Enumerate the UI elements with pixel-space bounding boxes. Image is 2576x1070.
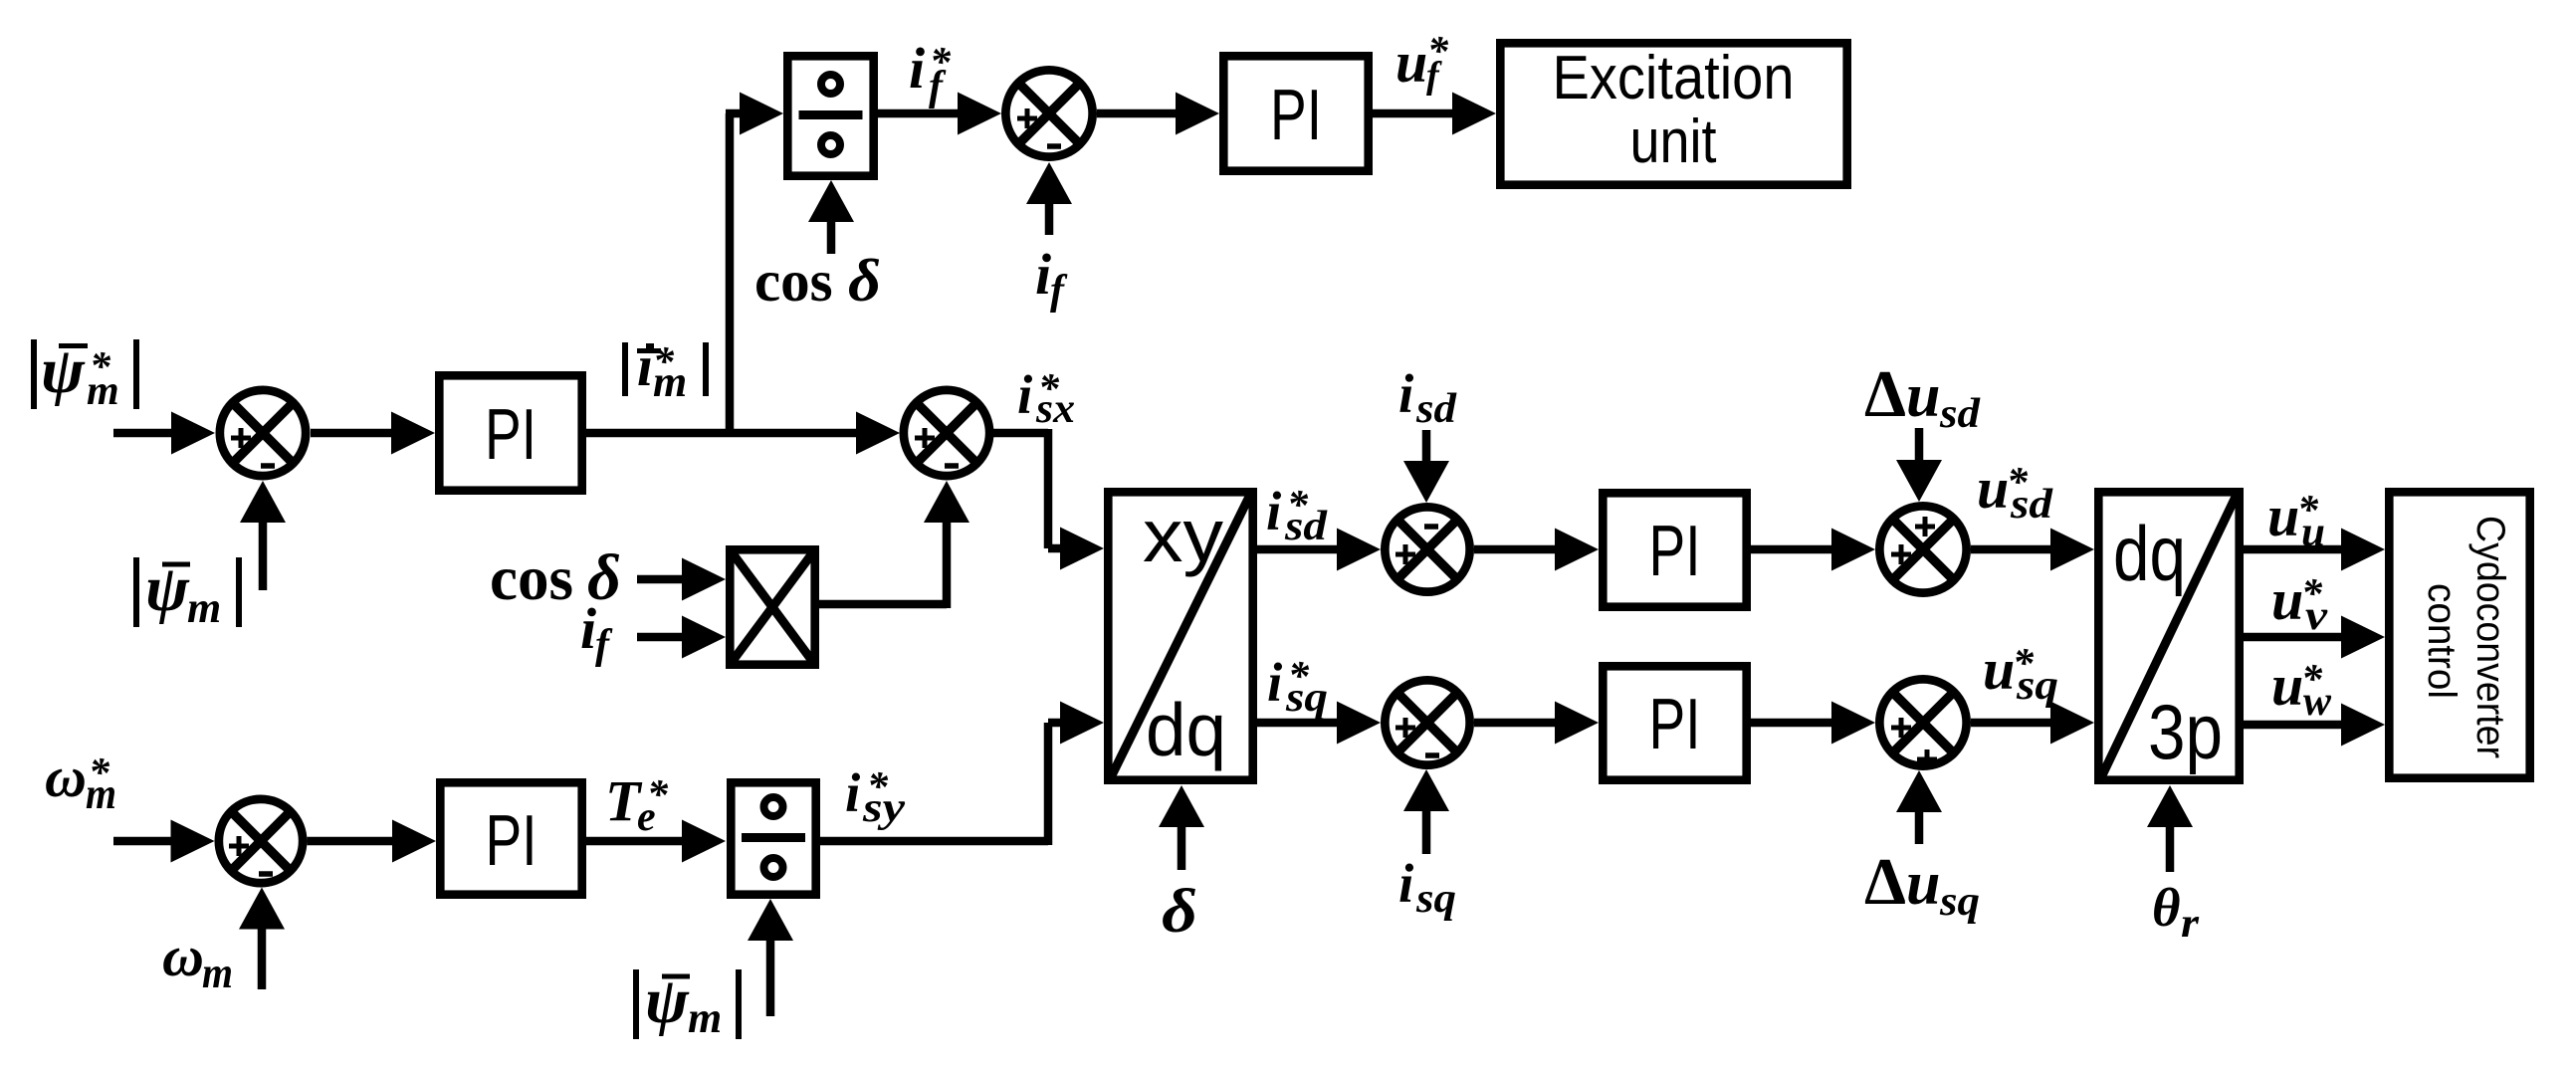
svg-text:i: i xyxy=(1267,652,1283,713)
label u_w* phase w voltage xyxy=(2271,653,2332,725)
svg-text:i: i xyxy=(580,596,596,661)
wire S1 to PI flux xyxy=(311,412,435,455)
wire speed reference input xyxy=(113,820,215,863)
svg-text:u: u xyxy=(2267,484,2299,548)
wire PI q-axis to S8 xyxy=(1751,702,1875,745)
wire Delta u_sq arrow into S8 xyxy=(1896,770,1942,844)
svg-text:sq: sq xyxy=(2016,663,2058,709)
svg-text:δ: δ xyxy=(848,248,881,314)
svg-text:sd: sd xyxy=(2010,482,2053,528)
wire S7 to PI q-axis xyxy=(1474,702,1599,745)
svg-text:w: w xyxy=(2303,679,2332,725)
wire flux feedback arrow into S1 xyxy=(240,481,286,590)
summing junction S5 d-current error xyxy=(1385,507,1469,591)
svg-text:PI: PI xyxy=(486,801,537,881)
label Delta u_sd compensation xyxy=(1864,357,1981,437)
divider block D1 xyxy=(787,56,873,175)
wire S5 to PI d-axis xyxy=(1474,529,1599,571)
svg-text:Cydoconverter: Cydoconverter xyxy=(2469,516,2512,758)
label u_sq* q-voltage reference xyxy=(1983,637,2058,709)
wire i_sq arrow into S7 xyxy=(1403,769,1449,854)
wire i_sd arrow into S5 xyxy=(1403,430,1449,503)
svg-text:i: i xyxy=(1398,363,1414,424)
svg-text:PI: PI xyxy=(485,395,537,475)
wire PI speed to divider D2 xyxy=(586,820,726,863)
wire i_f arrow into multiplier xyxy=(637,616,726,659)
svg-text:u: u xyxy=(1395,30,1427,95)
Cycloconverter control block xyxy=(2389,492,2529,777)
summing junction S6 d-voltage sum xyxy=(1879,506,1966,592)
summing junction S7 q-current error xyxy=(1385,680,1469,764)
svg-text:e: e xyxy=(637,794,656,840)
svg-text:dq: dq xyxy=(1146,688,1226,771)
svg-text:u: u xyxy=(1983,637,2015,702)
label u_v* phase v voltage xyxy=(2271,567,2329,639)
wire D1 to S2 xyxy=(878,93,1001,135)
svg-text:m: m xyxy=(87,368,119,414)
label cos delta under D1 xyxy=(754,248,881,314)
svg-text:cos: cos xyxy=(754,248,833,314)
svg-text:v: v xyxy=(2305,593,2329,639)
svg-text:i: i xyxy=(845,762,861,823)
label Delta u_sq compensation xyxy=(1864,845,1980,925)
wire xy-dq to S7 q-axis xyxy=(1257,702,1381,745)
wire PI d-axis to S6 xyxy=(1751,529,1875,571)
label omega_m speed feedback xyxy=(162,924,233,997)
wire dq-3p to cycloconverter phase v xyxy=(2244,616,2385,659)
svg-text:i: i xyxy=(1035,242,1051,307)
node |psi_m*| input label xyxy=(34,334,136,414)
svg-text:m: m xyxy=(202,949,233,997)
wire S2 to PI field xyxy=(1097,93,1219,135)
svg-text:m: m xyxy=(688,993,722,1042)
svg-text:i: i xyxy=(909,36,925,101)
svg-text:sd: sd xyxy=(1415,386,1457,432)
wire S3 to xy-dq block upper input xyxy=(993,429,1104,570)
PI controller q-axis xyxy=(1603,666,1746,779)
summing junction S1 flux error xyxy=(220,390,306,476)
wire D2 to xy-dq block lower input xyxy=(820,702,1104,846)
svg-text:Δ: Δ xyxy=(1864,845,1906,919)
Excitation unit block xyxy=(1500,43,1846,184)
wire xy-dq to S5 d-axis xyxy=(1257,529,1381,571)
svg-text:sd: sd xyxy=(1284,504,1328,549)
wire S6 to dq-3p block xyxy=(1971,529,2094,571)
svg-text:sx: sx xyxy=(1035,386,1075,432)
wire dq-3p to cycloconverter phase w xyxy=(2244,704,2385,747)
wire cos delta arrow into multiplier xyxy=(637,558,726,601)
label i_f feedback row1 xyxy=(1035,242,1068,314)
svg-text:u: u xyxy=(1977,456,2009,521)
label u_f* field voltage reference xyxy=(1395,29,1449,97)
label theta_r rotor angle xyxy=(2152,877,2200,947)
svg-text:ı: ı xyxy=(637,333,653,398)
label i_sd measured xyxy=(1398,363,1457,432)
label delta rotor angle xyxy=(1162,878,1197,946)
svg-text:m: m xyxy=(187,583,221,632)
svg-text:m: m xyxy=(86,769,116,818)
svg-text:dq: dq xyxy=(2113,510,2186,597)
svg-text:ω: ω xyxy=(45,745,87,809)
svg-text:δ: δ xyxy=(1162,878,1197,946)
svg-text:sq: sq xyxy=(1939,879,1980,925)
wire delta arrow into xy-dq block xyxy=(1159,785,1204,870)
label omega_m* speed reference xyxy=(45,745,116,818)
PI controller flux xyxy=(439,375,581,490)
PI controller field xyxy=(1223,56,1368,170)
svg-text:PI: PI xyxy=(1270,76,1322,155)
svg-text:θ: θ xyxy=(2152,877,2181,938)
label i_sx* stator x-current reference xyxy=(1017,364,1075,432)
wire speed feedback arrow into S4 xyxy=(239,888,285,990)
label u_u* phase u voltage xyxy=(2267,484,2325,555)
svg-text:sq: sq xyxy=(1285,675,1328,721)
svg-text:i: i xyxy=(1398,853,1414,914)
svg-text:sq: sq xyxy=(1415,876,1456,922)
svg-text:i: i xyxy=(1017,364,1033,425)
svg-text:u: u xyxy=(2271,653,2303,718)
svg-text:control: control xyxy=(2420,583,2464,699)
svg-text:m: m xyxy=(653,357,687,406)
dq/3p transformation block xyxy=(2098,492,2239,779)
label i_sq* output of xy-dq xyxy=(1267,652,1328,721)
summing junction S4 speed error xyxy=(219,799,303,883)
svg-text:sd: sd xyxy=(1939,391,1981,437)
wire multiplier output to S3 xyxy=(819,481,969,608)
label |psi_m| into D2 xyxy=(636,964,739,1042)
label cos delta multiplier input xyxy=(490,541,621,614)
label i_f multiplier input xyxy=(580,596,613,668)
label i_sd* output of xy-dq xyxy=(1266,481,1328,549)
divider block D2 xyxy=(731,782,815,894)
PI controller d-axis xyxy=(1603,493,1746,606)
svg-text:PI: PI xyxy=(1649,512,1701,591)
svg-text:xy: xy xyxy=(1143,494,1224,577)
wire PI field to excitation unit xyxy=(1373,93,1496,135)
svg-text:cos: cos xyxy=(490,543,573,613)
svg-text:unit: unit xyxy=(1630,107,1717,176)
wire PI flux output to S3 xyxy=(586,412,900,455)
svg-text:f: f xyxy=(595,622,613,668)
label u_sd* d-voltage reference xyxy=(1977,456,2053,528)
svg-text:PI: PI xyxy=(1649,685,1701,764)
wire S8 to dq-3p block xyxy=(1971,702,2094,745)
svg-text:i: i xyxy=(1266,481,1282,541)
wire branch up to divider D1 xyxy=(726,93,783,438)
summing junction S8 q-voltage sum xyxy=(1879,679,1966,769)
label |psi_m| flux feedback xyxy=(136,552,239,632)
label i_sy* stator y-current reference xyxy=(845,762,905,831)
wire i_f feedback arrow into S2 xyxy=(1026,162,1072,235)
svg-text:Excitation: Excitation xyxy=(1553,44,1795,112)
label i_f* field current reference xyxy=(909,36,952,109)
PI controller speed xyxy=(440,782,581,894)
wire theta_r arrow into dq-3p block xyxy=(2147,785,2193,872)
svg-text:u: u xyxy=(1906,362,1940,430)
multiplier block M1 xyxy=(730,549,815,665)
label i_sq measured xyxy=(1398,853,1456,922)
wire cos delta arrow into D1 xyxy=(808,180,854,254)
label |i_m*| magnetizing current reference xyxy=(625,333,706,406)
svg-text:u: u xyxy=(2271,567,2303,632)
svg-text:u: u xyxy=(1906,850,1940,918)
svg-text:sy: sy xyxy=(862,785,906,831)
svg-text:f: f xyxy=(1050,268,1068,314)
wire |psi_m| arrow into D2 xyxy=(748,899,793,1016)
wire flux reference input xyxy=(113,412,215,455)
label T_e* torque reference xyxy=(605,768,669,840)
wire S4 to PI speed xyxy=(308,820,437,863)
xy/dq transformation block xyxy=(1108,492,1252,779)
wire dq-3p to cycloconverter phase u xyxy=(2244,529,2385,571)
wire Delta u_sd arrow into S6 xyxy=(1896,428,1942,502)
svg-text:r: r xyxy=(2181,901,2200,947)
summing junction S2 field current error xyxy=(1005,70,1092,156)
svg-text:ω: ω xyxy=(162,924,204,988)
svg-text:3p: 3p xyxy=(2148,688,2223,775)
svg-text:Δ: Δ xyxy=(1864,357,1906,431)
summing junction S3 i_sx xyxy=(904,390,989,476)
